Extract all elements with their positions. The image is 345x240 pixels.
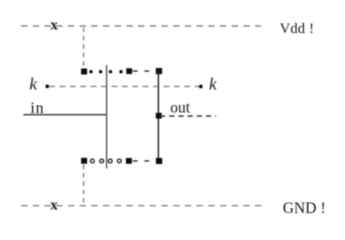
- wire out (vertical solid): [157, 71, 159, 162]
- transistor M2 NMOS channel ring 1: [90, 159, 94, 163]
- node out mid contact: [156, 113, 162, 119]
- transistor M2 NMOS drain contact: [126, 158, 132, 164]
- svg-text:x: x: [50, 18, 58, 34]
- svg-text:out: out: [170, 100, 191, 117]
- wire k net (dashed): [49, 85, 199, 87]
- transistor M1 PMOS channel dot 3: [109, 70, 112, 73]
- wire Vdd to PMOS source (vertical dashed): [83, 28, 85, 68]
- svg-text:Vdd !: Vdd !: [280, 21, 314, 37]
- transistor M1 PMOS drain contact: [126, 68, 132, 74]
- transistor M2 NMOS channel ring 4: [117, 159, 121, 163]
- wire Vdd rail (dashed): [21, 25, 261, 27]
- wire PMOS drain to out (dashed): [133, 70, 155, 72]
- svg-text:k: k: [29, 74, 37, 93]
- transistor M2 NMOS channel ring 2: [100, 159, 104, 163]
- wire NMOS source to GND (vertical dashed): [83, 165, 85, 205]
- svg-text:GND !: GND !: [283, 200, 326, 217]
- transistor M2 NMOS source contact: [81, 158, 87, 164]
- transistor M1 PMOS channel dot 4: [119, 70, 122, 73]
- node out top contact: [156, 68, 162, 74]
- node k right dot: [199, 85, 203, 89]
- wire NMOS drain to out (dashed): [133, 160, 155, 162]
- node out bottom contact: [156, 158, 162, 164]
- transistor M2 NMOS channel ring 3: [108, 159, 112, 163]
- wire GND rail (dashed): [21, 205, 262, 207]
- svg-text:k: k: [209, 75, 217, 94]
- transistor M1 PMOS channel dot 2: [99, 70, 102, 73]
- wire in (solid): [23, 114, 107, 116]
- node k left dot: [45, 85, 49, 89]
- wire out horizontal (dashed): [160, 115, 216, 117]
- transistor M1 PMOS source contact: [81, 69, 87, 75]
- transistor M1 PMOS channel dot 1: [89, 70, 92, 73]
- svg-text:x: x: [50, 198, 58, 214]
- wire gate poly (vertical solid): [106, 65, 108, 169]
